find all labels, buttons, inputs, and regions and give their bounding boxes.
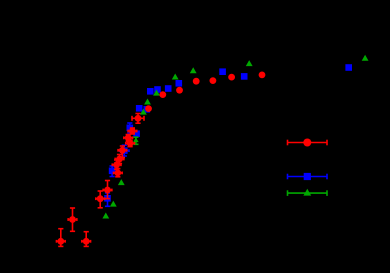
blue data point 12	[219, 68, 226, 75]
green data point 8	[172, 73, 179, 79]
blue data point 7	[144, 106, 151, 113]
red data point 13	[132, 114, 144, 124]
green data point 7	[153, 90, 160, 96]
red data point 3	[82, 232, 91, 247]
blue data point 4	[127, 123, 134, 133]
blue data point 10	[165, 85, 172, 92]
legend entry: blue square marker with error bar	[288, 173, 328, 180]
blue data point 2	[109, 166, 116, 177]
blue data point 14	[345, 64, 352, 71]
red data point 15	[159, 91, 166, 98]
legend entry: red circle marker with error bar	[288, 139, 328, 147]
red data point 19	[228, 74, 235, 81]
green triangle series (efficiency curve)	[102, 55, 368, 219]
red data point 17	[193, 78, 200, 85]
blue data point 5	[133, 130, 140, 137]
green data point 5	[140, 109, 147, 115]
red data point 14	[145, 105, 152, 112]
red data point 10	[126, 140, 135, 147]
blue data point 3	[120, 145, 129, 156]
blue data point 8	[147, 88, 154, 95]
red data point 2	[68, 208, 77, 231]
red data point 18	[210, 77, 217, 84]
green data point 9	[190, 67, 197, 73]
red data point 9	[118, 146, 127, 158]
red data point 6	[112, 160, 121, 169]
red data point 7	[113, 169, 122, 177]
green data point 6	[144, 98, 151, 104]
blue data point 9	[154, 86, 161, 93]
green data point 3	[118, 179, 125, 185]
green data point 10	[246, 60, 253, 66]
red circle series (efficiency curve)	[56, 72, 265, 247]
legend entry: green triangle marker with error bar	[288, 189, 328, 196]
green data point 11	[362, 55, 369, 61]
blue data point 11	[176, 80, 183, 87]
green data point 2	[110, 201, 117, 207]
blue data point 1	[104, 193, 111, 206]
blue square series (efficiency curve)	[104, 64, 352, 206]
red data point 16	[176, 87, 183, 94]
red data point 5	[103, 181, 112, 199]
red data point 12	[128, 128, 137, 135]
red data point 11	[124, 134, 133, 141]
red data point 8	[115, 155, 124, 164]
red data point 4	[96, 191, 105, 208]
green data point 4	[133, 137, 139, 144]
red data point 1	[56, 229, 65, 247]
green data point 1	[102, 212, 109, 218]
red data point 20	[259, 72, 266, 79]
blue data point 6	[136, 105, 143, 112]
blue data point 13	[241, 73, 248, 80]
